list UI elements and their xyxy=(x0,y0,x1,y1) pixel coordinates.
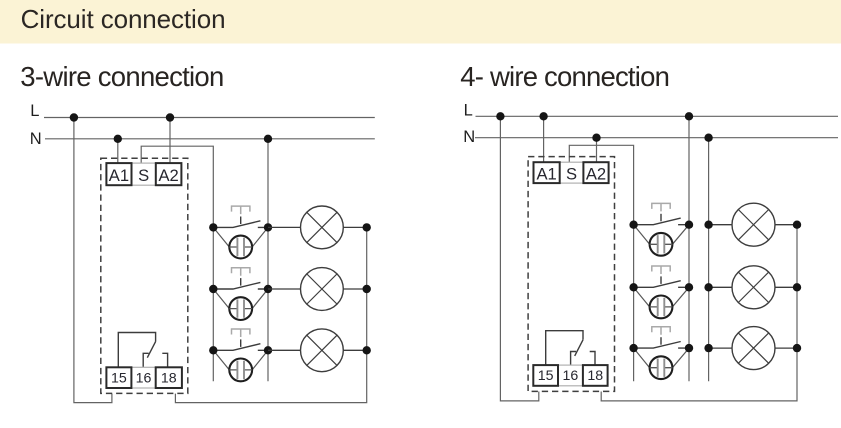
push button S1 link dash xyxy=(240,217,242,225)
node S1 left xyxy=(209,223,217,231)
push button S3 link dash xyxy=(240,339,242,347)
svg-text:16: 16 xyxy=(136,370,152,386)
svg-text:A2: A2 xyxy=(586,165,606,184)
wire: lamps to terminal 18 xyxy=(175,227,366,402)
neon indicator of S5 xyxy=(634,287,689,318)
junction N-A2 xyxy=(592,134,600,142)
terminal block A (4-wire) outline xyxy=(534,162,609,183)
svg-text:3-wire connection: 3-wire connection xyxy=(20,61,223,92)
terminal A2 xyxy=(583,162,608,183)
svg-text:16: 16 xyxy=(563,368,579,384)
lamp E5 xyxy=(709,266,797,309)
lamp E6 xyxy=(709,327,797,370)
junction L-A1 xyxy=(539,112,547,120)
node S4 right xyxy=(685,221,693,229)
junction N-lamp row3 xyxy=(704,344,712,352)
wire: N to A2 (4-wire) xyxy=(596,138,598,163)
lamp E2 xyxy=(268,268,367,311)
terminal 18 xyxy=(583,365,608,386)
push button S1 contact xyxy=(213,221,268,228)
header band xyxy=(0,0,841,44)
svg-text:18: 18 xyxy=(587,368,603,384)
node E4 out xyxy=(793,221,801,229)
node E3 out xyxy=(363,346,371,354)
svg-text:A2: A2 xyxy=(158,166,178,185)
svg-text:Circuit connection: Circuit connection xyxy=(21,4,226,34)
svg-text:15: 15 xyxy=(111,370,127,386)
wire: lamps to terminal 18 (4-wire) xyxy=(601,225,797,401)
push button S4 actuator xyxy=(651,203,671,211)
svg-text:A1: A1 xyxy=(536,165,556,184)
node S3 left xyxy=(209,346,217,354)
svg-text:N: N xyxy=(463,128,475,146)
relay fixed contact 18 (4-wire) xyxy=(590,352,595,366)
junction N-lamp row2 xyxy=(704,283,712,291)
node S1 right xyxy=(264,223,272,231)
junction L-A2 xyxy=(166,113,174,121)
wire: L to terminal 15 xyxy=(74,118,112,403)
push button S6 actuator xyxy=(651,327,671,335)
lamp E3 xyxy=(268,329,367,372)
relay fixed contact 16 (3-wire) xyxy=(143,353,149,367)
terminal block B (4-wire) outline xyxy=(533,365,607,386)
svg-text:S: S xyxy=(138,166,149,185)
wire: L to terminal 15 (4-wire) xyxy=(500,116,538,401)
svg-text:A1: A1 xyxy=(109,166,129,185)
node S2 left xyxy=(209,285,217,293)
terminal block B (3-wire) outline xyxy=(106,367,181,388)
push button S1 actuator xyxy=(231,206,251,214)
wire: line L (3-wire) xyxy=(44,117,375,119)
svg-text:N: N xyxy=(30,130,42,148)
junction N-lamp-rail xyxy=(704,134,712,142)
relay contact 3-wire blade xyxy=(147,342,155,358)
wire: N to A1 xyxy=(117,139,119,163)
node S6 left xyxy=(629,344,637,352)
neon indicator of S6 xyxy=(634,348,689,379)
junction L-rail xyxy=(685,112,693,120)
push button S6 link dash xyxy=(660,337,662,345)
wire: S to button rail xyxy=(141,146,213,381)
svg-text:18: 18 xyxy=(161,370,177,386)
terminal A1 xyxy=(534,162,560,183)
terminal 18 xyxy=(156,367,182,388)
terminal A1 xyxy=(106,163,131,185)
wire: line N (3-wire) xyxy=(45,138,375,140)
neon indicator of S1 xyxy=(213,227,268,258)
svg-text:S: S xyxy=(566,165,577,184)
node S3 right xyxy=(264,346,272,354)
push button S5 contact xyxy=(634,281,689,288)
wire: L to A2 xyxy=(169,118,171,164)
svg-text:4- wire connection: 4- wire connection xyxy=(460,61,669,92)
junction L-down (4-wire) xyxy=(496,112,504,120)
relay contact 4-wire blade xyxy=(575,340,583,356)
terminal block A (3-wire) outline xyxy=(106,163,181,185)
node S5 left xyxy=(629,283,637,291)
node S5 right xyxy=(685,283,693,291)
neon indicator of S2 xyxy=(213,289,268,320)
wire: N rail to buttons xyxy=(267,139,269,381)
junction N-A1 xyxy=(114,135,122,143)
push button S4 link dash xyxy=(660,214,662,222)
junction N-rail xyxy=(264,135,272,143)
node E6 out xyxy=(793,344,801,352)
push button S3 contact xyxy=(213,344,268,351)
push button S2 link dash xyxy=(240,278,242,286)
push button S6 contact xyxy=(634,342,689,349)
relay contact 3-wire common xyxy=(118,333,155,368)
wire: L rail to buttons (4-wire) xyxy=(688,116,690,381)
junction N-lamp row1 xyxy=(704,221,712,229)
wire: L to A1 (4-wire) xyxy=(543,116,545,162)
lamp E4 xyxy=(709,203,797,246)
neon indicator of S4 xyxy=(634,225,689,256)
push button S3 actuator xyxy=(231,329,251,337)
node E5 out xyxy=(793,283,801,291)
lamp E1 xyxy=(268,206,367,249)
terminal A2 xyxy=(156,163,182,185)
relay fixed contact 16 (4-wire) xyxy=(571,352,577,366)
push button S2 actuator xyxy=(231,268,251,276)
node E2 out xyxy=(363,285,371,293)
relay fixed contact 18 (3-wire) xyxy=(162,353,167,367)
node S6 right xyxy=(685,344,693,352)
svg-text:15: 15 xyxy=(538,368,554,384)
terminal 15 xyxy=(533,365,558,386)
push button S5 link dash xyxy=(660,276,662,284)
node E1 out xyxy=(363,223,371,231)
push button S2 contact xyxy=(213,282,268,289)
junction L-down xyxy=(70,113,78,121)
relay contact 4-wire common xyxy=(546,331,583,365)
device outline (4-wire relay) xyxy=(528,157,614,392)
push button S4 contact xyxy=(634,218,689,225)
neon indicator of S3 xyxy=(213,350,268,381)
wire: line N (4-wire) xyxy=(475,137,838,139)
wire: N rail to lamps (4-wire) xyxy=(708,138,710,382)
device outline (3-wire relay) xyxy=(101,158,188,393)
node S2 right xyxy=(264,285,272,293)
svg-text:L: L xyxy=(30,102,39,120)
svg-text:L: L xyxy=(464,102,473,120)
terminal 15 xyxy=(106,367,131,388)
push button S5 actuator xyxy=(651,266,671,274)
wire: line L (4-wire) xyxy=(476,115,839,117)
node S4 left xyxy=(629,221,637,229)
wire: S to button rail (4-wire) xyxy=(569,145,633,381)
